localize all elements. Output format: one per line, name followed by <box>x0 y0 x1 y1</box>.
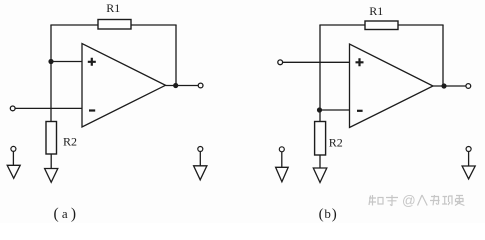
svg-text:(b): (b) <box>319 206 338 223</box>
wire: feedback right vertical (a) <box>175 25 177 86</box>
乎 <box>386 195 398 206</box>
wire: inverting input (b) <box>320 109 350 111</box>
svg-text:R2: R2 <box>63 135 77 149</box>
wire: output (b) <box>433 85 466 87</box>
ground terminal right (a) <box>194 147 207 180</box>
为 <box>430 195 440 205</box>
ground under R2 (b) <box>313 168 327 183</box>
svg-text:R1: R1 <box>369 4 383 18</box>
ground under R2 (a) <box>45 169 58 183</box>
wire: R1 to top-right corner (b) <box>398 24 444 26</box>
wire: output (a) <box>166 85 199 87</box>
op-amp U2 (b) <box>350 44 434 128</box>
人 <box>418 195 428 206</box>
watermark 知乎 @人为现象 <box>369 193 464 208</box>
node: output junction dot (b) <box>441 83 446 88</box>
svg-text:@: @ <box>402 193 416 208</box>
知 <box>369 195 376 206</box>
resistor R1 (a) <box>98 20 131 30</box>
wire: inverting input (a) <box>15 107 82 109</box>
ground terminal right (b) <box>462 147 475 179</box>
wire: noninverting input (b) <box>283 61 350 63</box>
resistor R2 (b) <box>315 122 326 156</box>
wire: noninverting input (a) <box>51 61 82 63</box>
wire: top-left corner to R1 (a) <box>50 24 98 26</box>
ground terminal left (a) <box>7 146 20 178</box>
wire: feedback left vertical (b) <box>319 25 321 122</box>
svg-text:R2: R2 <box>329 136 343 150</box>
wire: feedback left vertical (a) <box>50 25 52 122</box>
resistor R1 (b) <box>365 21 398 30</box>
svg-text:(a): (a) <box>54 206 80 223</box>
wire: top-left corner to R1 (b) <box>319 24 365 26</box>
ground terminal left (b) <box>276 147 289 182</box>
象 <box>455 195 464 206</box>
resistor R2 (a) <box>46 122 57 155</box>
node: feedback junction dot (a) <box>48 59 53 64</box>
wire: R2 to ground (b) <box>319 155 321 168</box>
output terminal (a) <box>198 83 203 88</box>
wire: R2 to ground (a) <box>50 154 52 169</box>
node: feedback junction dot (b) <box>317 107 322 112</box>
output terminal (b) <box>466 84 471 89</box>
node: output junction dot (a) <box>173 83 178 88</box>
op-amp U1 (a) <box>82 44 166 128</box>
input terminal (a) <box>10 106 15 111</box>
svg-text:R1: R1 <box>106 1 120 15</box>
input terminal (b) <box>278 60 283 65</box>
wire: feedback right vertical (b) <box>442 25 444 86</box>
wire: R1 to top-right corner (a) <box>131 24 177 26</box>
现 <box>442 196 452 205</box>
